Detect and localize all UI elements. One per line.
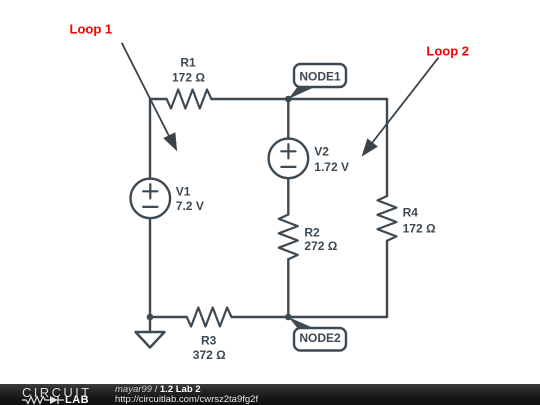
svg-text:R1: R1 — [180, 56, 196, 70]
label V1 value 7.2 V — [176, 199, 204, 213]
svg-text:Loop 2: Loop 2 — [426, 44, 469, 59]
label V2 designator — [314, 144, 329, 158]
label R2 value 272 Ω — [304, 239, 337, 253]
label R4 value 172 Ω — [403, 222, 436, 236]
svg-text:172 Ω: 172 Ω — [172, 71, 205, 85]
label R4 designator — [403, 205, 419, 219]
node NODE1 callout — [288, 64, 346, 99]
resistor R3 — [187, 308, 232, 327]
svg-text:Loop 1: Loop 1 — [70, 21, 113, 36]
resistor R1 — [167, 90, 212, 109]
ground — [136, 317, 165, 348]
wire bottom-left segment — [150, 316, 187, 318]
wire node1 to V2 — [287, 99, 289, 139]
annotation Loop 2 arrow — [363, 58, 439, 156]
svg-text:R4: R4 — [403, 205, 419, 219]
wire R2 to node2 — [287, 259, 289, 317]
resistor R4 — [378, 196, 397, 241]
annotation Loop 1 text — [70, 21, 113, 36]
junction dot at ground — [147, 314, 154, 321]
voltage source V2 — [269, 139, 309, 179]
wire left lower — [149, 218, 151, 317]
label V1 designator — [176, 185, 191, 199]
wire top-left segment — [150, 98, 167, 100]
CircuitLab logo LAB — [65, 394, 89, 405]
node NODE2 junction dot — [285, 314, 292, 321]
svg-text:272 Ω: 272 Ω — [304, 239, 337, 253]
label R3 designator — [201, 333, 217, 347]
svg-text:7.2 V: 7.2 V — [176, 199, 204, 213]
credit text — [115, 385, 258, 405]
svg-text:172 Ω: 172 Ω — [403, 222, 436, 236]
wire right upper — [386, 99, 388, 196]
svg-text:R2: R2 — [304, 225, 320, 239]
svg-text:NODE1: NODE1 — [299, 70, 341, 84]
node NODE1 junction dot — [285, 96, 292, 103]
CircuitLab logo glyph (resistor + diode) — [22, 395, 86, 405]
resistor R2 — [279, 215, 298, 260]
label R2 designator — [304, 225, 320, 239]
wire right lower — [386, 241, 388, 317]
wire top-right segment — [211, 98, 387, 100]
voltage source V1 — [131, 179, 171, 219]
svg-text:372 Ω: 372 Ω — [193, 348, 226, 362]
svg-text:R3: R3 — [201, 333, 217, 347]
annotation Loop 2 text — [426, 44, 469, 59]
node NODE2 callout — [288, 317, 346, 351]
wire V2 to R2 — [287, 178, 289, 214]
label R1 designator — [180, 56, 196, 70]
svg-text:V1: V1 — [176, 185, 191, 199]
label R3 value 372 Ω — [193, 348, 226, 362]
CircuitLab logo CIRCUIT — [22, 385, 92, 400]
wire left upper — [149, 99, 151, 179]
wire bottom-right segment — [232, 316, 388, 318]
svg-text:NODE2: NODE2 — [299, 331, 341, 345]
svg-text:1.72 V: 1.72 V — [314, 160, 349, 174]
svg-text:V2: V2 — [314, 144, 329, 158]
annotation Loop 1 arrow — [122, 43, 177, 150]
footer bar — [0, 384, 540, 405]
label V2 value 1.72 V — [314, 160, 349, 174]
label R1 value 172 Ω — [172, 71, 205, 85]
